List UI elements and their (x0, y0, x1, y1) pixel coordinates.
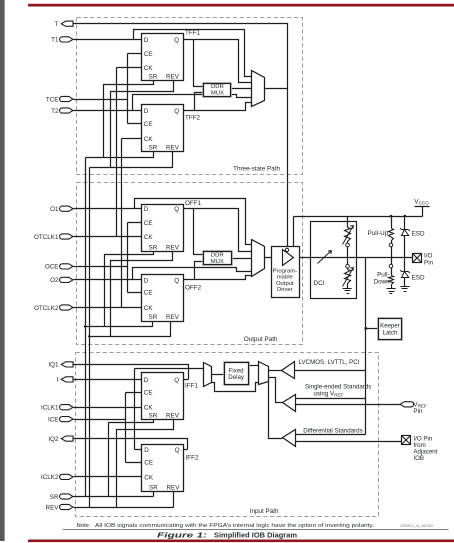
svg-text:IQ2: IQ2 (48, 436, 59, 443)
svg-text:CK: CK (144, 65, 154, 72)
wire OFF2 Q to mux2 (183, 276, 252, 280)
svg-text:T: T (55, 21, 59, 28)
Input Path dashed box (76, 353, 379, 517)
wire DDR mux2 output to mux2 (232, 258, 252, 260)
wire OTCLK1 to OFF1 CK (74, 236, 142, 238)
wire ICLK2 to IFF2 CK (74, 476, 142, 478)
Three-state Path dashed box (77, 18, 303, 175)
wire TFF1 REV down to REV bus (111, 81, 174, 168)
pull-up resistor zigzag (389, 229, 394, 242)
svg-text:SR: SR (149, 314, 158, 321)
wire IQ1 to IFF1 Q (71, 365, 189, 380)
svg-text:REV: REV (166, 244, 180, 251)
flip-flop OFF2 (142, 275, 184, 322)
DCI ground (343, 289, 352, 294)
svg-text:CE: CE (144, 460, 153, 467)
pull-down ground (387, 289, 396, 294)
svg-text:SR: SR (149, 244, 158, 251)
pin OTCLK1 (60, 234, 73, 239)
buffer2 input from pad line (296, 398, 366, 400)
svg-text:All IOB signals communicating: All IOB signals communicating with the F… (95, 523, 374, 529)
input buffer LVCMOS/LVTTL/PCI (282, 362, 295, 379)
svg-text:VCCO: VCCO (414, 198, 429, 205)
svg-text:Q: Q (174, 37, 179, 44)
mux input delay mux3 (204, 363, 212, 387)
svg-text:LVCMOS, LVTTL, PCI: LVCMOS, LVTTL, PCI (299, 359, 360, 366)
svg-text:Q: Q (174, 108, 179, 115)
wire OFF1 SR down (105, 251, 154, 327)
input buffer differential (283, 430, 296, 447)
page left gray sidebar (0, 0, 5, 541)
wire TCE net (74, 54, 142, 124)
wire SR pin net (74, 492, 154, 497)
svg-text:Output: Output (276, 281, 294, 287)
wire TFF2 Q branch to DDR mux in2 (195, 93, 204, 111)
flip-flop IFF1 (142, 373, 184, 420)
svg-text:ICE: ICE (48, 416, 59, 423)
svg-text:Q: Q (175, 447, 180, 454)
DDR MUX (three-state) (203, 83, 232, 98)
buffer2 input from VREF pin (296, 404, 403, 406)
svg-text:DDR: DDR (211, 252, 224, 258)
REV bus vertical (89, 168, 91, 508)
wire TFF2 CK stub (122, 138, 142, 140)
svg-text:CK: CK (144, 475, 154, 482)
svg-text:T1: T1 (51, 37, 59, 44)
svg-text:CK: CK (144, 136, 154, 143)
svg-text:Q: Q (174, 277, 179, 284)
svg-text:IFF1: IFF1 (185, 383, 198, 390)
svg-text:Pull-: Pull- (377, 271, 390, 278)
svg-text:REV: REV (166, 74, 180, 81)
svg-text:IQ1: IQ1 (48, 362, 59, 369)
wire ICLK1 to IFF1 CK (74, 407, 142, 409)
bypass under fixed delay (212, 383, 259, 392)
DCI box (311, 222, 357, 299)
svg-text:CE: CE (144, 121, 153, 128)
wire O2 to OFF2 D (74, 279, 142, 281)
VREF pin connector (400, 402, 413, 407)
svg-text:OFF1: OFF1 (185, 200, 202, 207)
flip-flop IFF2 (142, 445, 184, 492)
svg-text:mable: mable (277, 275, 294, 281)
ESD diode lower symbol (400, 270, 410, 273)
wire TFF1 Q to mux (183, 40, 252, 83)
wire IFF1 Q stub (184, 379, 189, 381)
wire OFF1 Q branch to DDR mux2 in1 (194, 209, 204, 255)
figure rule (63, 529, 449, 531)
page bottom red rule (28, 540, 454, 543)
svg-text:SR: SR (149, 485, 158, 492)
wire ICE net (74, 393, 142, 463)
pin ICLK1 (60, 405, 73, 410)
pin O2 (60, 277, 73, 282)
svg-text:OTCLK2: OTCLK2 (34, 305, 59, 312)
I/O pad symbol (413, 254, 422, 263)
OTCLK1 bus vertical (116, 68, 118, 237)
svg-text:OCE: OCE (45, 264, 59, 271)
svg-text:SR: SR (149, 412, 158, 419)
svg-text:REV: REV (46, 504, 60, 511)
DCI variable impedance arrow on output line (318, 251, 332, 264)
VCCO rail (294, 207, 430, 217)
pull-down resistor zigzag (389, 276, 394, 286)
svg-text:Differential Standards: Differential Standards (303, 428, 362, 435)
svg-text:OTCLK1: OTCLK1 (34, 234, 59, 241)
flip-flop TFF1 (142, 34, 184, 81)
mux three-state output mux (252, 71, 265, 107)
OTCLK2 bus vertical (121, 139, 123, 308)
mux4 to buffer2 (269, 378, 283, 403)
svg-text:CK: CK (144, 234, 154, 241)
svg-text:CE: CE (144, 290, 153, 297)
wire REV pin net (74, 492, 174, 508)
svg-text:REV: REV (166, 145, 180, 152)
svg-text:TFF1: TFF1 (185, 30, 201, 37)
wire OFF2 Q branch to DDR mux2 in2 (195, 262, 204, 280)
svg-text:ICLK1: ICLK1 (41, 405, 59, 412)
fixed delay to mux4 (249, 365, 259, 367)
svg-text:Note:: Note: (77, 523, 91, 529)
pin OTCLK2 (60, 305, 73, 310)
svg-text:IOB: IOB (413, 455, 424, 462)
wire T1 to TFF1 D (74, 39, 142, 41)
wire DDR mux1 output to mux (232, 88, 252, 90)
DCI pull-up variable resistor (345, 228, 351, 243)
ESD diode upper symbol (400, 228, 410, 231)
svg-text:SR: SR (149, 145, 158, 152)
Output Path dashed box (77, 183, 303, 345)
driver buffer triangle (283, 250, 294, 266)
svg-text:CK: CK (144, 405, 154, 412)
ESD diode upper (404, 217, 406, 258)
svg-text:Input Path: Input Path (250, 508, 279, 515)
svg-text:Driver: Driver (277, 287, 293, 293)
wire OFF2 REV to REV bus (90, 322, 171, 337)
svg-text:MUX: MUX (211, 259, 224, 265)
wire TFF1 CK stub (117, 67, 142, 69)
wire I / D net (71, 379, 142, 381)
SR bus vertical (85, 158, 87, 497)
junction pull-up at VCCO rail (390, 215, 393, 218)
wire T2 to TFF2 D (74, 110, 142, 112)
pull-down resistor (391, 258, 393, 265)
pin OCE (60, 264, 73, 269)
svg-text:REV: REV (166, 314, 180, 321)
wire mux3 output to D net and IFF2 D (135, 369, 204, 450)
svg-text:TFF2: TFF2 (185, 115, 201, 122)
svg-text:Figure 1:: Figure 1: (157, 532, 207, 539)
wire TFF2 SR to SR bus (86, 152, 154, 158)
Keeper Latch box (378, 318, 403, 341)
Programmable Output Driver box (272, 247, 300, 298)
wire IFF1 SR down (109, 420, 154, 497)
wire TFF2 REV to REV bus (90, 152, 173, 168)
svg-text:Pin: Pin (424, 259, 434, 266)
wire O1 bypass branch to mux2 (135, 199, 252, 245)
svg-text:Program-: Program- (273, 268, 298, 274)
svg-text:REV: REV (167, 485, 181, 492)
ESD diode lower (404, 258, 406, 287)
svg-text:OFF2: OFF2 (185, 284, 202, 291)
mux4 to buffer1 (269, 370, 282, 372)
svg-text:Simplified IOB Diagram: Simplified IOB Diagram (214, 532, 297, 539)
ESD ground (401, 287, 410, 292)
svg-text:Output Path: Output Path (244, 336, 278, 343)
keeper latch wire (366, 328, 379, 330)
svg-text:CE: CE (144, 389, 153, 396)
wire TFF2 Q to mux (183, 103, 252, 111)
pin ICLK2 (60, 474, 73, 479)
svg-text:IFF2: IFF2 (186, 455, 199, 462)
pin O1 (60, 206, 73, 211)
pin IQ1 (61, 362, 73, 367)
wire O1 to OFF1 D (74, 208, 142, 210)
svg-text:D: D (144, 447, 149, 454)
wire T1 bypass branch to mux (134, 30, 252, 77)
mux output path mux (252, 240, 265, 277)
svg-text:I: I (57, 377, 59, 384)
wire VCCO to driver (293, 217, 295, 247)
svg-text:DS099-2_01_082104: DS099-2_01_082104 (401, 524, 433, 528)
svg-text:Latch: Latch (382, 329, 397, 336)
wire driver output to I/O pad (294, 257, 413, 259)
svg-text:T2: T2 (51, 108, 59, 115)
wire IFF2 Q stub (184, 449, 188, 451)
svg-text:D: D (144, 108, 149, 115)
mux input standards mux4 (259, 362, 269, 385)
svg-text:CE: CE (144, 220, 153, 227)
svg-text:Delay: Delay (228, 374, 245, 381)
junction ESD at VCCO rail (404, 215, 407, 218)
svg-text:ICLK2: ICLK2 (41, 474, 59, 481)
mux3 to fixed delay (212, 374, 225, 376)
adjacent IOB pad symbol (402, 436, 411, 445)
svg-text:CK: CK (144, 305, 154, 312)
pull-up resistor (391, 217, 393, 229)
svg-text:O1: O1 (50, 206, 59, 213)
svg-text:using VREF: using VREF (314, 390, 344, 397)
mux4 to buffer3 (269, 382, 283, 439)
wire TFF1 Q branch to DDR mux in1 (194, 40, 204, 87)
svg-text:DDR: DDR (211, 84, 224, 90)
pin SR (60, 494, 73, 499)
svg-text:Pin: Pin (413, 408, 423, 415)
page top red rule (28, 4, 454, 7)
svg-text:ESD: ESD (412, 275, 425, 282)
svg-text:O2: O2 (50, 277, 59, 284)
flip-flop TFF2 (142, 105, 184, 152)
wire T2 bypass branch to mux (133, 95, 252, 111)
svg-text:Three-state Path: Three-state Path (233, 165, 280, 172)
wire T to output-enable mux bypass and driver enable (71, 24, 288, 249)
buffer1 input from pad line (295, 370, 366, 372)
driver tri-state bubble (285, 248, 288, 251)
pin T2 (60, 108, 73, 113)
svg-text:Q: Q (174, 377, 179, 384)
pin I (61, 377, 73, 382)
pin REV (60, 504, 73, 509)
svg-text:Pull-Up: Pull-Up (368, 230, 389, 237)
svg-text:REV: REV (166, 412, 180, 419)
wire mux1 output (265, 88, 288, 90)
svg-text:D: D (144, 206, 149, 213)
wire O2 bypass branch to mux2 (133, 268, 252, 280)
svg-text:D: D (144, 377, 149, 384)
wire OFF2 SR to SR bus (86, 322, 153, 327)
svg-text:D: D (144, 37, 149, 44)
DDR MUX (output) (203, 251, 233, 266)
junction OFF2 SR (84, 325, 86, 327)
Fixed Delay box (224, 362, 250, 386)
buffer3 input from adjacent IOB pad (296, 441, 402, 443)
pin TCE (60, 96, 73, 101)
svg-text:TCE: TCE (46, 96, 59, 103)
DCI resistor chain (347, 217, 349, 228)
wire IQ2 to IFF2 Q (71, 439, 188, 450)
input buffer single-ended VREF (283, 395, 296, 412)
wire OCE net (74, 223, 142, 293)
wire OFF1 Q to mux2 (183, 209, 252, 252)
pin ICE (60, 417, 73, 422)
pin T1 (60, 37, 73, 42)
flip-flop OFF1 (142, 205, 184, 252)
buffer3 input from pad line (296, 434, 366, 436)
svg-text:SR: SR (149, 74, 158, 81)
svg-text:MUX: MUX (211, 90, 224, 96)
svg-text:ESD: ESD (412, 231, 425, 238)
svg-text:SR: SR (50, 494, 59, 501)
wire OTCLK2 to OFF2 CK (74, 307, 142, 309)
svg-text:DCI: DCI (314, 280, 325, 287)
pad tap vertical to input path (365, 258, 367, 435)
wire IFF1 REV down (117, 420, 174, 508)
pin T (61, 21, 73, 26)
svg-text:Q: Q (174, 206, 179, 213)
svg-text:Down: Down (374, 278, 391, 285)
wire TFF1 SR down to SR bus (104, 81, 154, 158)
svg-text:CE: CE (144, 51, 153, 58)
svg-text:D: D (144, 277, 149, 284)
DCI pull-down variable resistor (345, 270, 351, 285)
wire mux2 output to driver (265, 257, 283, 259)
wire OFF1 REV down (111, 251, 173, 337)
pin IQ2 (61, 436, 73, 441)
junction OFF2 REV (88, 335, 90, 337)
